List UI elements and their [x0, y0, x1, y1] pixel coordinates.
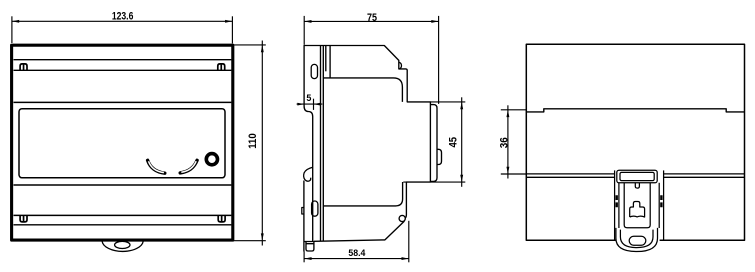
dim 45 arrow top [460, 102, 463, 109]
dim 45 arrow bottom [460, 175, 463, 182]
dim 45 line [461, 97, 463, 187]
svg-text:110: 110 [247, 133, 259, 149]
channel wall ticks right [660, 195, 662, 207]
slider latch hole [630, 202, 645, 218]
dim 58.4 arrow right [402, 257, 409, 260]
dim 5 ext stub [313, 99, 315, 110]
side inner vertical short [325, 46, 327, 72]
side bottom foot [304, 242, 314, 252]
front horizontal line D [14, 184, 232, 186]
terminal outer face [431, 105, 437, 182]
dim 123.6 ext right [231, 16, 233, 43]
dim 5 line [297, 103, 323, 105]
dim 110 ext bottom [234, 240, 266, 242]
dim 36 ext top [501, 109, 527, 111]
dim 36 line [507, 105, 509, 178]
bottom-left clip [20, 216, 27, 222]
swoosh arc left (outlined) [148, 160, 165, 173]
side release hook [304, 167, 313, 181]
front horizontal line B [14, 69, 232, 71]
slider foot outer [616, 228, 658, 252]
dim 75 arrow left [304, 20, 311, 23]
dim 45 ext bottom [403, 181, 465, 183]
dim 36 ext bottom [501, 173, 527, 175]
dim 36 arrow top [506, 110, 509, 117]
clip channel wall left inner [618, 183, 620, 228]
dim 123.6 ext left [11, 16, 13, 43]
svg-text:5: 5 [306, 93, 312, 104]
dim 110 line [261, 41, 263, 246]
dim 123.6 arrow right [225, 20, 232, 23]
clip channel wall right inner [658, 183, 660, 228]
plate slot lower [312, 201, 318, 216]
plate slot upper [311, 64, 317, 78]
front outer case [12, 45, 233, 240]
side profile outer top [304, 46, 430, 219]
dim 5 arrow right outside [314, 103, 321, 106]
front button ring [206, 154, 217, 165]
dim 75 line [304, 20, 438, 22]
top-left clip [20, 64, 27, 70]
bottom-right clip [218, 216, 225, 222]
dim 123.6 arrow left [12, 20, 19, 23]
dim 110 arrow bottom [261, 233, 264, 240]
dim 123.6 line [12, 20, 233, 22]
dim 58.4 arrow left [304, 257, 311, 260]
bottom tab oval [115, 241, 130, 248]
back band line 1 right [664, 173, 745, 175]
dim 58.4 line [304, 258, 409, 260]
dim 58.4 ext right [408, 221, 410, 262]
top-right clip [218, 64, 225, 70]
back band line 2 right [664, 176, 745, 178]
dim 36 arrow bottom [506, 167, 509, 174]
front horizontal line A [14, 59, 232, 61]
side profile lower diagonal [314, 221, 405, 241]
front horizontal line E [14, 214, 232, 216]
back outline [526, 44, 744, 240]
dim 5 arrow left outside [297, 103, 304, 106]
svg-text:75: 75 [367, 12, 377, 24]
slider cap outer [617, 170, 657, 183]
side inner lower horizontal [323, 182, 402, 206]
svg-text:45: 45 [448, 137, 460, 148]
back band line 2 left [526, 176, 614, 178]
back stepped line [526, 109, 744, 112]
dim 110 ext top [233, 44, 266, 46]
slider body [624, 183, 650, 228]
dim 45 ext top [430, 101, 465, 103]
dim 75 ext right [438, 16, 440, 104]
bottom DIN tab arc [102, 241, 143, 251]
swoosh arc right (outlined) [180, 160, 197, 173]
side inner top vertical [329, 46, 331, 78]
svg-text:123.6: 123.6 [112, 11, 134, 23]
dim 110 arrow top [261, 45, 264, 52]
svg-text:58.4: 58.4 [348, 248, 366, 258]
side housing back edge S-jog [304, 105, 313, 242]
channel wall ticks left [616, 195, 618, 207]
side slider edge bump [302, 208, 304, 215]
front horizontal line F [14, 224, 232, 226]
side hinge circle [399, 215, 405, 221]
chamfer corner fillet [399, 62, 401, 69]
terminal face bump [437, 149, 442, 164]
side DIN slider left edge (full height) [303, 181, 305, 252]
front horizontal line C [14, 101, 232, 103]
side inner vertical 2 [322, 46, 324, 242]
slider foot inner [620, 230, 653, 248]
clip channel wall right outer [663, 170, 665, 240]
dim 75 arrow right [431, 20, 438, 23]
side inner vertical 1 [320, 46, 322, 242]
slider top notch [635, 183, 639, 188]
back band line 1 left [526, 173, 614, 175]
slider foot pill [629, 236, 646, 245]
svg-text:36: 36 [499, 137, 511, 148]
slider cap inner [620, 172, 654, 180]
display window panel [19, 109, 225, 178]
dim 75 ext left [303, 16, 305, 45]
clip channel wall left outer [614, 170, 616, 240]
side inner top horizontal [323, 78, 402, 102]
dim 58.4 ext left [303, 252, 305, 263]
